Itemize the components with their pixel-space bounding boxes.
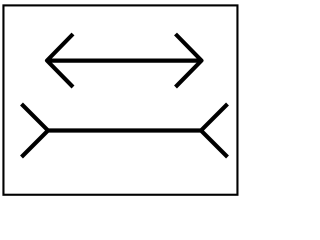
bottom line shaft: [48, 128, 201, 132]
bottom-left fins (inward): [22, 104, 49, 157]
top-left arrowhead (outward): [47, 34, 73, 87]
bottom-right fins (inward): [201, 104, 228, 157]
frame border: [3, 5, 237, 194]
top line shaft: [47, 58, 202, 62]
top-right arrowhead (outward): [176, 34, 202, 87]
